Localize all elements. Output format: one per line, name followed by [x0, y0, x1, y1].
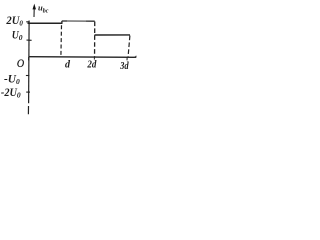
- svg-text:-2U0: -2U0: [1, 87, 21, 100]
- svg-text:d: d: [65, 59, 71, 70]
- y-axis arrowhead: [33, 4, 37, 10]
- x-axis: [29, 56, 136, 59]
- segment d to 2d (faded middle): [67, 20, 86, 22]
- segment 2d to 3d: [95, 34, 131, 36]
- segment d to 2d (dark right part): [86, 20, 95, 22]
- y-axis (lower part after scan gap): [27, 106, 29, 114]
- svg-text:ubc: ubc: [38, 2, 49, 14]
- svg-text:O: O: [17, 58, 25, 70]
- tick d below x-axis: [93, 57, 95, 60]
- svg-text:2U0: 2U0: [6, 13, 24, 28]
- y-axis arrow shaft: [33, 9, 35, 17]
- svg-text:-U0: -U0: [4, 73, 20, 86]
- dashed vertical at 2d (step down): [94, 22, 96, 57]
- tick U0: [27, 39, 32, 41]
- tick 2U0: [26, 21, 29, 23]
- dashed vertical at d: [60, 25, 63, 56]
- segment d to 2d (dark left part): [62, 20, 67, 22]
- tick -U0: [26, 75, 30, 77]
- origin stub below x-axis: [28, 57, 30, 60]
- tick -2U0: [26, 91, 30, 93]
- tick 3d below x-axis: [126, 57, 128, 60]
- dashed vertical at 3d: [128, 36, 130, 57]
- y-axis (upper part): [28, 21, 31, 104]
- x-axis end hook (arrow): [135, 56, 137, 57]
- segment 0 to d at 2U0: [28, 22, 62, 24]
- svg-text:2d: 2d: [87, 60, 98, 71]
- step up at d: [61, 21, 63, 24]
- svg-text:3d: 3d: [119, 61, 129, 72]
- svg-text:U0: U0: [12, 29, 23, 42]
